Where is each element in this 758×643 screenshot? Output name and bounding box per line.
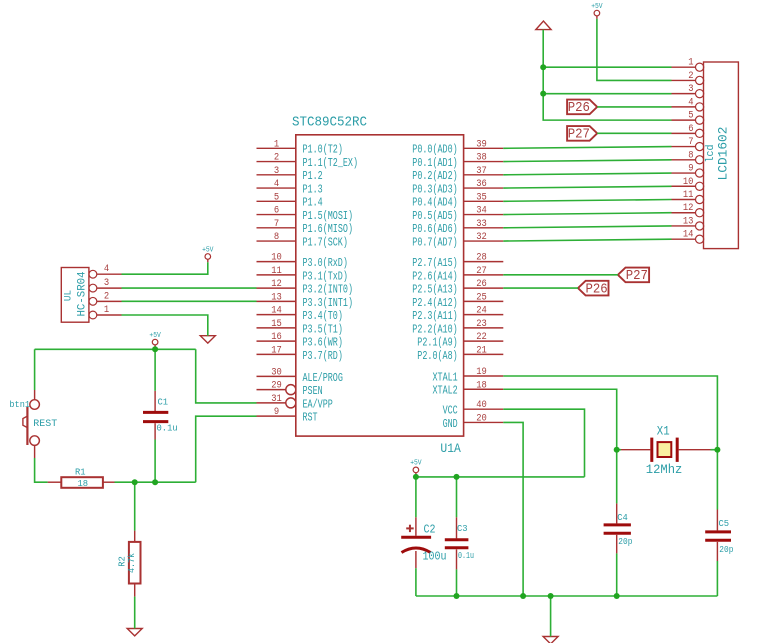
svg-text:18: 18 xyxy=(78,478,89,489)
pin 35 P0.4(AD4) xyxy=(412,192,503,209)
pin 26 P2.5(A13) xyxy=(412,279,503,296)
wire C1 bottom xyxy=(154,440,156,483)
pin 36 P0.3(AD3) xyxy=(412,179,503,196)
capacitor C4 value 20p xyxy=(604,503,633,553)
wire C4 bottom xyxy=(616,553,618,596)
wire R2 top xyxy=(134,482,136,530)
svg-text:P3.0(RxD): P3.0(RxD) xyxy=(303,257,348,270)
pin 10 P3.0(RxD) xyxy=(257,253,348,270)
svg-text:REST: REST xyxy=(33,418,57,430)
pin 5 of LCD1602 xyxy=(672,111,704,125)
wire +5V rail bottom xyxy=(416,476,585,478)
svg-text:2: 2 xyxy=(274,153,279,164)
svg-text:2: 2 xyxy=(104,291,109,302)
svg-text:P3.6(WR): P3.6(WR) xyxy=(303,337,343,350)
pin 7 P1.6(MISO) xyxy=(257,219,354,236)
svg-text:12Mhz: 12Mhz xyxy=(646,463,683,477)
pin 3 of HC-SR04 xyxy=(89,278,122,292)
pin 11 P3.1(TxD) xyxy=(257,266,348,283)
wire RST node to RST pin xyxy=(196,416,257,482)
wire VCC to +5V rail xyxy=(503,409,584,477)
svg-text:6: 6 xyxy=(688,124,693,135)
power +5V at C2 xyxy=(410,460,422,476)
pin 3 P1.2 xyxy=(257,166,323,183)
svg-text:LCD1602: LCD1602 xyxy=(716,127,731,181)
svg-text:P0.2(AD2): P0.2(AD2) xyxy=(412,170,457,183)
wire crystal right link xyxy=(711,449,718,451)
net label P26 at IC pin26 xyxy=(578,281,609,298)
svg-text:P0.3(AD3): P0.3(AD3) xyxy=(412,183,457,196)
svg-text:30: 30 xyxy=(271,367,282,378)
svg-text:4: 4 xyxy=(688,97,693,108)
svg-text:P2.6(A14): P2.6(A14) xyxy=(412,270,457,283)
svg-text:1: 1 xyxy=(688,58,693,69)
pin 14 of LCD1602 xyxy=(672,230,704,244)
svg-text:+5V: +5V xyxy=(149,332,161,340)
junction at 717.4,449.7 xyxy=(714,447,720,453)
svg-text:14: 14 xyxy=(683,230,694,241)
wire P0.0 to LCD pin7 xyxy=(503,147,671,149)
svg-text:28: 28 xyxy=(476,253,487,264)
svg-text:6: 6 xyxy=(274,206,279,217)
svg-text:21: 21 xyxy=(476,345,487,356)
svg-text:P1.1(T2_EX): P1.1(T2_EX) xyxy=(303,157,359,170)
svg-text:UL: UL xyxy=(64,290,75,301)
pin 1 P1.0(T2) xyxy=(257,139,343,156)
svg-text:20: 20 xyxy=(476,413,487,424)
pin 4 of LCD1602 xyxy=(672,97,704,111)
pin 16 P3.6(WR) xyxy=(257,332,343,349)
pin 18 XTAL2 xyxy=(433,380,504,397)
pin 9 RST xyxy=(257,407,318,424)
resistor R1 value 18 xyxy=(48,467,115,489)
wire P27 tag to LCD pin6 xyxy=(597,132,671,134)
svg-text:C2: C2 xyxy=(424,524,436,537)
svg-text:P3.3(INT1): P3.3(INT1) xyxy=(303,297,354,310)
pin 9 of LCD1602 xyxy=(672,164,704,178)
wire crystal left link xyxy=(617,449,621,451)
svg-text:P3.5(T1): P3.5(T1) xyxy=(303,323,343,336)
pin 37 P0.2(AD2) xyxy=(412,166,503,183)
wire ground rail bottom xyxy=(416,595,718,597)
switch btn1 REST push button xyxy=(9,390,57,458)
connector UL HC-SR04 body xyxy=(61,268,89,323)
wire XTAL2 to crystal left xyxy=(503,389,616,449)
svg-text:VCC: VCC xyxy=(443,405,458,418)
svg-text:7: 7 xyxy=(274,219,279,230)
svg-text:STC89C52RC: STC89C52RC xyxy=(292,115,367,131)
pin 4 P1.3 xyxy=(257,179,323,196)
svg-text:11: 11 xyxy=(683,190,694,201)
wire P2.5 to tag P26 xyxy=(503,287,578,289)
svg-text:20p: 20p xyxy=(719,544,733,555)
IC U1A STC89C52RC microcontroller body xyxy=(292,115,464,457)
pin 11 of LCD1602 xyxy=(672,190,704,204)
svg-text:5: 5 xyxy=(274,192,279,203)
wire HC-SR04 pin4 to +5V xyxy=(122,262,208,274)
wire R1 to RST node xyxy=(115,481,196,483)
svg-text:13: 13 xyxy=(271,292,282,303)
svg-text:X1: X1 xyxy=(657,425,670,439)
wire rail to EA/VPP xyxy=(196,349,257,403)
pin 12 P3.2(INT0) xyxy=(257,279,354,296)
svg-text:XTAL1: XTAL1 xyxy=(433,371,458,384)
svg-text:19: 19 xyxy=(476,367,487,378)
svg-text:P0.1(AD1): P0.1(AD1) xyxy=(412,157,457,170)
pin 39 P0.0(AD0) xyxy=(412,139,503,156)
svg-text:31: 31 xyxy=(271,394,282,405)
wire R2 bottom to ground xyxy=(134,597,136,629)
pin 40 VCC xyxy=(443,400,504,417)
junction at 523.1,596 xyxy=(520,593,526,599)
svg-text:P27: P27 xyxy=(626,269,648,284)
pin 10 of LCD1602 xyxy=(672,177,704,191)
svg-text:2: 2 xyxy=(688,71,693,82)
svg-text:32: 32 xyxy=(476,232,487,243)
svg-text:P2.0(A8): P2.0(A8) xyxy=(417,350,457,363)
svg-text:C3: C3 xyxy=(457,523,468,534)
svg-text:R1: R1 xyxy=(75,467,86,478)
svg-text:P1.7(SCK): P1.7(SCK) xyxy=(303,236,348,249)
junction at 456.5,476.9 xyxy=(454,474,460,480)
pin 21 P2.0(A8) xyxy=(417,345,503,362)
junction at 543.2,93.66 xyxy=(540,91,546,97)
pin 19 XTAL1 xyxy=(433,367,504,384)
pin 33 P0.6(AD6) xyxy=(412,219,503,236)
svg-text:36: 36 xyxy=(476,179,487,190)
pin 2 of HC-SR04 xyxy=(89,291,122,305)
junction at 543.2,67.2 xyxy=(540,64,546,70)
pin 1 of LCD1602 xyxy=(672,58,704,72)
wire P26 tag to LCD pin4 xyxy=(597,106,671,108)
svg-text:btn1: btn1 xyxy=(9,399,30,410)
svg-text:26: 26 xyxy=(476,279,487,290)
svg-text:P26: P26 xyxy=(585,282,607,297)
pin 25 P2.4(A12) xyxy=(412,292,503,309)
pin 20 GND xyxy=(443,413,504,430)
wire GND arrow to LCD pin5 xyxy=(543,30,671,121)
svg-text:8: 8 xyxy=(688,150,693,161)
svg-text:3: 3 xyxy=(104,278,109,289)
pin 2 of LCD1602 xyxy=(672,71,704,85)
svg-text:+5V: +5V xyxy=(410,460,422,468)
wire rail to button top xyxy=(34,349,36,390)
svg-text:4.7k: 4.7k xyxy=(127,553,137,573)
svg-text:P0.6(AD6): P0.6(AD6) xyxy=(412,223,457,236)
svg-text:40: 40 xyxy=(476,400,487,411)
pin 7 of LCD1602 xyxy=(672,137,704,151)
wire button bottom to R1 xyxy=(35,458,48,482)
wire XTAL1 to crystal right xyxy=(503,376,717,450)
svg-text:100u: 100u xyxy=(423,551,447,564)
svg-text:25: 25 xyxy=(476,292,487,303)
svg-text:U1A: U1A xyxy=(440,441,461,456)
svg-text:34: 34 xyxy=(476,206,487,217)
pin 5 P1.4 xyxy=(257,192,323,209)
svg-text:8: 8 xyxy=(274,232,279,243)
wire C5 top xyxy=(716,450,718,510)
wire C2 top xyxy=(415,477,417,517)
wire +5V to LCD pin2 xyxy=(597,19,672,81)
capacitor C5 value 20p xyxy=(705,510,733,562)
power +5V at HC-SR04 pin4 xyxy=(202,246,214,262)
pin 22 P2.1(A9) xyxy=(417,332,503,349)
pin 31 EA/VPP xyxy=(257,394,333,411)
wire GND to LCD pin1 xyxy=(543,66,671,68)
pin 13 of LCD1602 xyxy=(672,216,704,230)
svg-text:10: 10 xyxy=(271,253,282,264)
svg-text:P3.4(T0): P3.4(T0) xyxy=(303,310,343,323)
svg-text:C1: C1 xyxy=(158,397,169,408)
svg-text:P3.7(RD): P3.7(RD) xyxy=(303,350,343,363)
svg-text:27: 27 xyxy=(476,266,487,277)
svg-text:7: 7 xyxy=(688,137,693,148)
svg-text:P2.4(A12): P2.4(A12) xyxy=(412,297,457,310)
pin 6 P1.5(MOSI) xyxy=(257,206,354,223)
svg-text:11: 11 xyxy=(271,266,282,277)
junction at 616.7,596 xyxy=(614,593,620,599)
pin 3 of LCD1602 xyxy=(672,84,704,98)
svg-text:12: 12 xyxy=(683,203,694,214)
wire +5V stem at C2 xyxy=(415,475,417,477)
svg-text:C4: C4 xyxy=(617,512,628,523)
wire HC-SR04 pin3 to P3.2 xyxy=(122,287,257,289)
capacitor C1 value 0.1u xyxy=(143,391,178,440)
wire GND to LCD pin3 xyxy=(543,93,671,95)
pin 13 P3.3(INT1) xyxy=(257,292,354,309)
svg-text:+5V: +5V xyxy=(202,246,214,254)
svg-text:P0.4(AD4): P0.4(AD4) xyxy=(412,197,457,210)
wire P0.5 to LCD pin12 xyxy=(503,213,671,215)
ground at bottom rail xyxy=(543,637,558,643)
svg-text:33: 33 xyxy=(476,219,487,230)
svg-text:16: 16 xyxy=(271,332,282,343)
svg-text:P0.5(AD5): P0.5(AD5) xyxy=(412,210,457,223)
svg-text:9: 9 xyxy=(274,407,279,418)
power +5V at LCD pin2 xyxy=(591,3,603,19)
svg-text:1: 1 xyxy=(274,139,279,150)
svg-text:P3.1(TxD): P3.1(TxD) xyxy=(303,270,348,283)
junction at 415.9,476.9 xyxy=(413,474,419,480)
net label P27 at IC pin27 xyxy=(618,268,649,285)
svg-text:ALE/PROG: ALE/PROG xyxy=(303,372,343,385)
ground at HC-SR04 pin1 xyxy=(200,336,215,343)
svg-text:22: 22 xyxy=(476,332,487,343)
wire P0.7 to LCD pin14 xyxy=(503,239,671,241)
pin 29 PSEN xyxy=(257,381,323,398)
wire P2.6 to tag P27 xyxy=(503,274,618,276)
svg-text:P1.6(MISO): P1.6(MISO) xyxy=(303,223,354,236)
svg-text:4: 4 xyxy=(104,264,109,275)
wire C2 bottom xyxy=(415,568,417,596)
svg-text:12: 12 xyxy=(271,279,282,290)
svg-text:XTAL2: XTAL2 xyxy=(433,385,458,398)
pin 12 of LCD1602 xyxy=(672,203,704,217)
svg-text:3: 3 xyxy=(274,166,279,177)
wire P0.1 to LCD pin8 xyxy=(503,160,671,162)
pin 14 P3.4(T0) xyxy=(257,306,343,323)
svg-text:P26: P26 xyxy=(568,101,590,116)
connector lcd LCD1602 body xyxy=(704,62,739,249)
capacitor C3 value 0.1u xyxy=(445,517,474,569)
svg-text:EA/VPP: EA/VPP xyxy=(303,398,333,411)
power +5V at reset circuit xyxy=(149,332,161,348)
svg-text:P0.0(AD0): P0.0(AD0) xyxy=(412,144,457,157)
junction at 155.1,349.3 xyxy=(152,346,158,352)
pin 17 P3.7(RD) xyxy=(257,345,343,362)
svg-text:P1.3: P1.3 xyxy=(303,183,323,196)
wire HC-SR04 pin1 to ground xyxy=(122,315,208,336)
svg-text:39: 39 xyxy=(476,139,487,150)
wire C4 top xyxy=(616,450,618,504)
svg-text:P2.1(A9): P2.1(A9) xyxy=(417,337,457,350)
svg-text:HC-SR04: HC-SR04 xyxy=(77,271,89,316)
junction at 456.5,596 xyxy=(454,593,460,599)
net label P26 near LCD pin4 xyxy=(567,100,597,117)
svg-text:29: 29 xyxy=(271,381,282,392)
pin 23 P2.2(A10) xyxy=(412,319,503,336)
svg-text:18: 18 xyxy=(476,380,487,391)
pin 24 P2.3(A11) xyxy=(412,306,503,323)
svg-text:10: 10 xyxy=(683,177,694,188)
svg-text:15: 15 xyxy=(271,319,282,330)
svg-text:5: 5 xyxy=(688,111,693,122)
junction at 616.7,449.7 xyxy=(614,447,620,453)
svg-text:P1.2: P1.2 xyxy=(303,170,323,183)
wire P0.4 to LCD pin11 xyxy=(503,200,671,202)
pin 8 P1.7(SCK) xyxy=(257,232,348,249)
svg-text:35: 35 xyxy=(476,192,487,203)
resistor R2 value 4.7k xyxy=(117,531,141,597)
pin 38 P0.1(AD1) xyxy=(412,153,503,170)
svg-text:1: 1 xyxy=(104,305,109,316)
svg-text:P2.3(A11): P2.3(A11) xyxy=(412,310,457,323)
svg-text:17: 17 xyxy=(271,345,282,356)
svg-text:P1.0(T2): P1.0(T2) xyxy=(303,144,343,157)
svg-text:GND: GND xyxy=(443,418,458,431)
pin 15 P3.5(T1) xyxy=(257,319,343,336)
svg-text:P0.7(AD7): P0.7(AD7) xyxy=(412,236,457,249)
pin 34 P0.5(AD5) xyxy=(412,206,503,223)
svg-text:14: 14 xyxy=(271,306,282,317)
ground below R2 xyxy=(127,629,142,636)
svg-text:20p: 20p xyxy=(618,536,632,547)
wire C3 top xyxy=(456,477,458,517)
svg-text:+5V: +5V xyxy=(591,3,603,11)
svg-text:P1.5(MOSI): P1.5(MOSI) xyxy=(303,210,354,223)
svg-text:P3.2(INT0): P3.2(INT0) xyxy=(303,284,354,297)
junction at 134.7,482.2 xyxy=(132,479,138,485)
wire P0.2 to LCD pin9 xyxy=(503,173,671,175)
svg-text:24: 24 xyxy=(476,306,487,317)
svg-text:C5: C5 xyxy=(719,518,730,529)
junction at 155.1,482.2 xyxy=(152,479,158,485)
wire C1 top xyxy=(154,349,156,391)
svg-text:P2.5(A13): P2.5(A13) xyxy=(412,284,457,297)
wire +5V stem at reset xyxy=(154,347,156,349)
wire +5V rail reset xyxy=(35,348,196,350)
svg-text:0.1u: 0.1u xyxy=(157,423,178,434)
svg-text:P1.4: P1.4 xyxy=(303,197,323,210)
wire P0.6 to LCD pin13 xyxy=(503,226,671,228)
ground arrow above LCD (apex up) xyxy=(536,21,551,30)
wire P0.3 to LCD pin10 xyxy=(503,186,671,188)
svg-text:13: 13 xyxy=(683,216,694,227)
wire C5 bottom xyxy=(716,561,718,596)
pin 6 of LCD1602 xyxy=(672,124,704,138)
svg-text:RST: RST xyxy=(303,412,318,425)
svg-text:P2.7(A15): P2.7(A15) xyxy=(412,257,457,270)
pin 32 P0.7(AD7) xyxy=(412,232,503,249)
pin 4 of HC-SR04 xyxy=(89,264,122,278)
pin 2 P1.1(T2_EX) xyxy=(257,153,359,170)
pin 28 P2.7(A15) xyxy=(412,253,503,270)
svg-text:P27: P27 xyxy=(568,128,590,143)
crystal X1 value 12Mhz xyxy=(620,425,712,478)
wire GND pin to ground rail xyxy=(503,422,523,596)
svg-text:37: 37 xyxy=(476,166,487,177)
svg-text:3: 3 xyxy=(688,84,693,95)
wire HC-SR04 pin2 to P3.3 xyxy=(122,300,257,302)
wire ground stem bottom xyxy=(550,596,552,637)
net label P27 near LCD pin6 xyxy=(567,126,597,143)
svg-text:9: 9 xyxy=(688,164,693,175)
wire C3 bottom xyxy=(456,569,458,596)
svg-text:23: 23 xyxy=(476,319,487,330)
svg-text:38: 38 xyxy=(476,153,487,164)
pin 30 ALE/PROG xyxy=(257,367,343,384)
svg-text:PSEN: PSEN xyxy=(303,385,323,398)
svg-text:0.1u: 0.1u xyxy=(458,550,474,561)
capacitor C2 polarized value 100u xyxy=(401,517,446,568)
pin 27 P2.6(A14) xyxy=(412,266,503,283)
pin 1 of HC-SR04 xyxy=(89,305,122,319)
junction at 550.6,596 xyxy=(548,593,554,599)
svg-text:4: 4 xyxy=(274,179,279,190)
svg-text:P2.2(A10): P2.2(A10) xyxy=(412,323,457,336)
pin 8 of LCD1602 xyxy=(672,150,704,164)
